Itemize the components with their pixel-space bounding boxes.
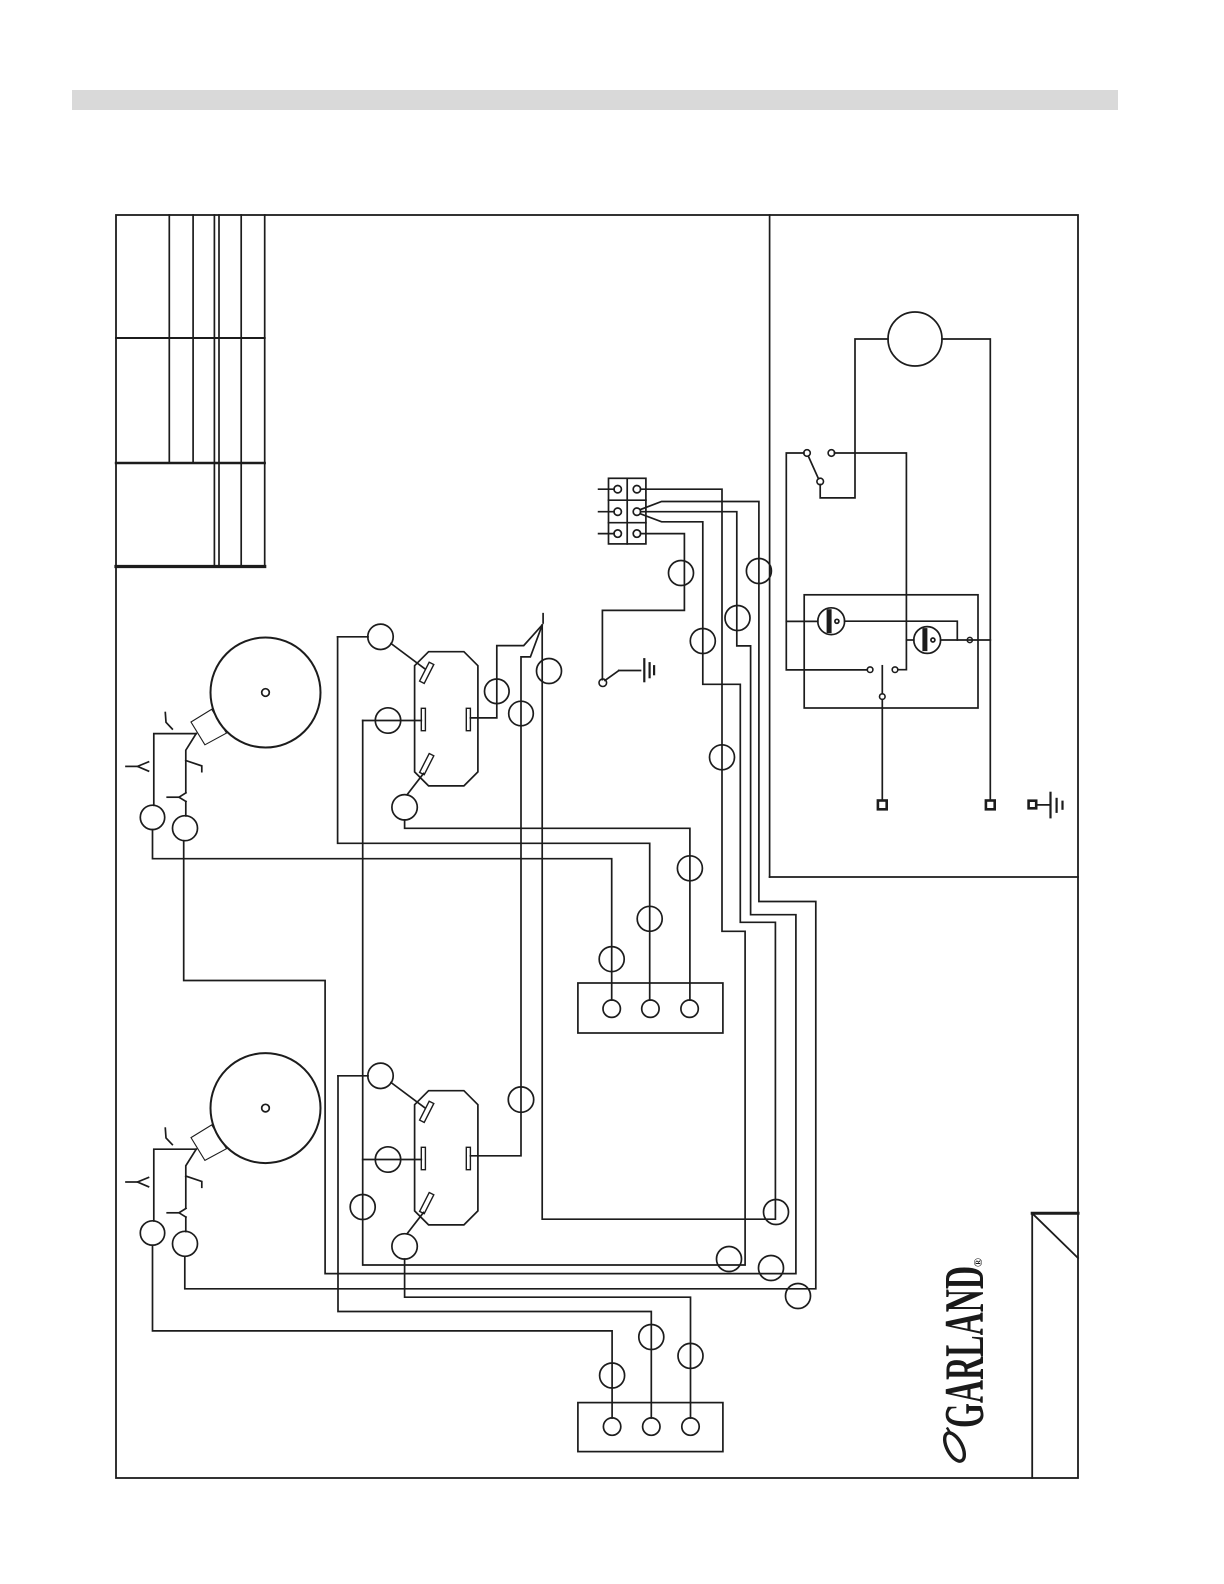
TB1 pin 1L [614, 486, 621, 493]
splice C2 coil [375, 1147, 400, 1172]
LOWERMOTOR_GROUP [126, 1053, 625, 1418]
contactor C2 contact bar right [466, 1147, 470, 1169]
stub branch M1 [186, 761, 202, 772]
wire M2 feed L2 diagonal [186, 1149, 196, 1208]
TB2_GROUP [578, 983, 723, 1033]
title block column line 1 [168, 215, 170, 463]
title block right edge [264, 215, 266, 567]
wire C1 load to TB2-3 [405, 820, 690, 1000]
splice on row1 bottom run [717, 1247, 742, 1272]
splice on TB2-1 feed [599, 947, 624, 972]
TB2 terminal 1 [603, 1000, 620, 1017]
plug fork M2-L2 tail [167, 1212, 179, 1214]
plug fork M2-L1 tail [126, 1181, 138, 1183]
wire C2 line diagonal [391, 1083, 425, 1108]
lamp L2 dot [931, 638, 935, 642]
wire contact b to drop [834, 453, 906, 595]
motor M2 junction box [191, 1125, 227, 1161]
LOWERCONTACTOR_GROUP [338, 1063, 703, 1418]
splice on C1 right riser [485, 679, 510, 704]
wire sensor right lead [942, 339, 990, 801]
title block column line 2 [192, 215, 194, 463]
splice on TB3-2 feed [639, 1325, 664, 1350]
splice C2 load terminal [392, 1234, 417, 1259]
TB1 pin 2L [614, 508, 621, 515]
ground stem wire [1036, 804, 1050, 806]
plug fork M1-L2 tail [167, 796, 179, 798]
splice C1 load terminal [392, 795, 417, 820]
title block column line 4 [218, 215, 220, 567]
terminal strip TB1 row line 1 [609, 499, 646, 501]
lamp L2 filament bar [922, 631, 927, 649]
wire lamp L2 right lead [941, 639, 991, 641]
splice on fan c riser [690, 629, 715, 654]
RIGHTSECTION_GROUP [786, 312, 1062, 817]
ground G2 bar long [643, 659, 645, 681]
revision box [1032, 1213, 1078, 1478]
wire M1 feed L1 [154, 734, 196, 806]
contactor C2 top blade [420, 1101, 434, 1122]
terminal strip TB1 center line [626, 478, 628, 544]
revision box top edge thick [1032, 1212, 1078, 1215]
title block row line 1 [116, 337, 265, 339]
splice M1-L2 [173, 816, 198, 841]
terminal block TB2 body [578, 983, 723, 1033]
wire row1 to coils [363, 489, 745, 1265]
overload heater OL1 lead [185, 802, 187, 816]
wire C1 coil lead [363, 720, 422, 722]
splice on TB2-3 feed [677, 856, 702, 881]
wire sensor left lead [820, 339, 888, 498]
overload heater OL2 lead [185, 1217, 187, 1231]
thermostat sensor B1 [888, 312, 942, 366]
wire contact a to drop [786, 453, 867, 670]
splice on igniter riser [537, 659, 562, 684]
title block column line 5 [240, 215, 242, 567]
splice on row3 riser [669, 561, 694, 586]
wire M2-L1 to TB3 [153, 1245, 613, 1418]
ground lug square [1029, 801, 1037, 809]
splice C1 line terminal [368, 624, 393, 649]
switch S2 blade [605, 671, 619, 681]
drawing border frame [116, 215, 1078, 1478]
TB1 pin 1R [633, 486, 640, 493]
terminal lug TB-B [986, 801, 995, 810]
motor M1 junction box [191, 709, 227, 745]
right section bottom border [770, 876, 1078, 878]
wire lamp L1 right lead [845, 621, 958, 640]
title block column line 3 [213, 215, 215, 567]
wire lamp L1 left lead [786, 620, 818, 622]
wire C2 coil lead [363, 1159, 422, 1161]
wire M1-L1 to TB2 [153, 830, 612, 1000]
switch S4 contact b [892, 667, 898, 673]
ground G2 bar short [653, 666, 655, 674]
splice on TB2-2 feed [637, 906, 662, 931]
disconnect blade M1-L1 [165, 713, 172, 730]
ground G2 bar medium [648, 663, 650, 677]
TB2 terminal 3 [681, 1000, 698, 1017]
TB3_GROUP [578, 1403, 723, 1452]
svg-text:GARLAND: GARLAND [934, 1266, 996, 1428]
wire C2 load diagonal [407, 1213, 424, 1234]
contactor C2 contact bar left [421, 1147, 425, 1169]
splice C2 line terminal [368, 1063, 393, 1088]
wire S4 arm lead down [881, 700, 883, 801]
wire C2 load to TB3-3 [405, 1259, 691, 1418]
wire C1 load diagonal [407, 774, 424, 795]
ground bar long [1049, 793, 1051, 818]
arrow return wire [470, 625, 542, 1156]
wire TB1 stub 3 [599, 533, 614, 535]
contactor C1 contact bar right [466, 708, 470, 730]
splice on fan a bottom run [786, 1284, 811, 1309]
wire drop b lower [898, 595, 906, 670]
splice on return wire lower [508, 1087, 533, 1112]
plug fork M1-L1 tail [126, 765, 138, 767]
wire TB1 stub 2 [599, 511, 614, 513]
Garland flame tick [948, 1429, 951, 1434]
splice on coil riser [350, 1195, 375, 1220]
TITLEBLOCK_GROUP [116, 215, 265, 567]
switch S4 blade [881, 666, 883, 694]
svg-text:®: ® [971, 1258, 985, 1267]
wire C2 line lead [338, 1075, 368, 1077]
TB3 terminal 3 [682, 1418, 699, 1435]
splice M2-L1 [140, 1221, 164, 1245]
switch S3 arm terminal [817, 478, 824, 485]
motor M1 body [211, 638, 321, 748]
wire C1 right contact lead [470, 625, 542, 718]
contactor C2 bottom blade [420, 1193, 434, 1214]
title block row line 2 [116, 462, 265, 464]
wire row2 fan b [184, 512, 796, 1274]
splice on return wire upper [509, 701, 534, 726]
splice on TB3-3 feed [678, 1343, 703, 1368]
plug fork M1-L1 tines [138, 762, 149, 771]
igniter stub [542, 614, 544, 623]
terminal dot lamp L2 out [967, 637, 972, 642]
splice on TB3-1 feed [600, 1363, 625, 1388]
ground bar short [1061, 802, 1063, 809]
ground bar medium [1055, 799, 1057, 812]
UPPERCONTACTOR_GROUP [338, 614, 703, 1156]
lamp L2 body [914, 627, 941, 654]
contactor C1 contact bar left [421, 708, 425, 730]
switch S4 contact a [867, 667, 873, 673]
wire C1 line diagonal [391, 644, 425, 669]
plug fork M2-L1 tines [138, 1178, 149, 1187]
wire TB1 stub 1 [599, 488, 614, 490]
header gray bar [72, 90, 1118, 110]
wire C1 line to TB2-2 [338, 637, 650, 1000]
lamp L1 filament bar [827, 612, 832, 631]
motor M2 shaft dot [262, 1104, 270, 1112]
terminal strip TB1 body [609, 478, 646, 544]
switch S3 contact a [804, 450, 811, 457]
stub branch M2 [186, 1176, 202, 1187]
disconnect blade M2-L1 [165, 1128, 172, 1145]
wire M2 feed L1 [154, 1149, 196, 1221]
wire M1 feed L2 diagonal [186, 734, 196, 793]
wire row2 fan c [542, 514, 775, 1219]
switch S2 arm terminal [599, 679, 607, 687]
motor M2 body [211, 1053, 321, 1163]
switch S3 contact b [828, 450, 835, 457]
terminal lug TB-A [878, 801, 887, 810]
TERMBLOCK6_GROUP [599, 478, 646, 544]
TB2 terminal 2 [642, 1000, 659, 1017]
switch S4 arm terminal [880, 694, 886, 700]
TB1 pin 3R [633, 530, 640, 537]
Garland flame swoosh [941, 1430, 969, 1464]
wire C1 line lead [338, 636, 368, 638]
contactor C1 body [415, 652, 478, 786]
TB1 pin 3L [614, 530, 621, 537]
splice on fan b bottom run [759, 1256, 784, 1281]
splice C1 coil [375, 708, 400, 733]
wire row2 fan a [185, 502, 816, 1289]
contactor C2 body [415, 1091, 478, 1225]
TB3 terminal 1 [603, 1418, 620, 1435]
LOGO_GROUP [934, 1213, 1078, 1478]
UPPERMOTOR_GROUP [126, 638, 624, 1001]
wire C2 line to TB3-2 [338, 1076, 651, 1418]
motor M1 shaft dot [262, 689, 270, 697]
splice on fan c corner [764, 1200, 789, 1225]
wire row3 to ground switch [602, 534, 684, 680]
FRAME_GROUP [116, 215, 1078, 1478]
title block bottom edge [116, 565, 265, 568]
MIDWIRES_GROUP [184, 489, 816, 1308]
wire S2 to ground [619, 670, 641, 672]
TB3 terminal 2 [643, 1418, 660, 1435]
relay box K1 [804, 595, 978, 708]
lamp L1 body [818, 608, 845, 635]
switch S3 blade [809, 457, 819, 479]
terminal block TB3 body [578, 1403, 723, 1452]
contactor C1 bottom blade [420, 754, 434, 775]
plug fork M1-L2 tines [179, 793, 186, 802]
splice M2-L2 [173, 1231, 198, 1256]
wire lamp L2 left lead [906, 639, 913, 641]
terminal strip TB1 row line 2 [609, 522, 646, 524]
splice M1-L1 [140, 805, 164, 829]
splice on row1 riser [710, 745, 735, 770]
section divider wire [769, 215, 771, 877]
contactor C1 top blade [420, 662, 434, 683]
TB1 pin 2R [633, 508, 640, 515]
splice on fan a riser [746, 559, 771, 584]
splice on fan b riser [725, 606, 750, 631]
plug fork M2-L2 tines [179, 1208, 186, 1217]
lamp L1 dot [835, 619, 839, 623]
